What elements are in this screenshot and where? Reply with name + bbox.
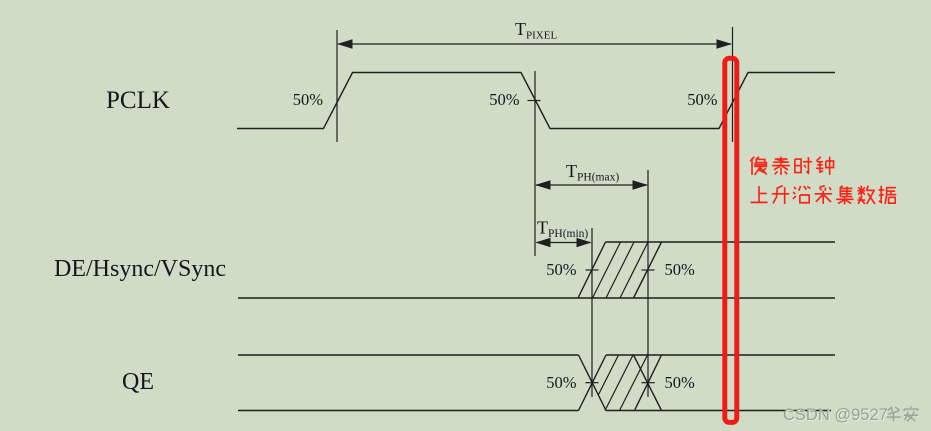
svg-text:QE: QE <box>122 369 154 395</box>
svg-text:50%: 50% <box>665 373 696 392</box>
svg-text:50%: 50% <box>293 90 324 109</box>
svg-text:50%: 50% <box>665 260 696 279</box>
svg-text:50%: 50% <box>687 90 718 109</box>
svg-text:PCLK: PCLK <box>106 87 170 114</box>
svg-text:CSDN @9527: CSDN @9527 <box>783 406 888 424</box>
svg-text:50%: 50% <box>546 373 577 392</box>
svg-text:DE/Hsync/VSync: DE/Hsync/VSync <box>54 256 226 282</box>
svg-text:50%: 50% <box>489 90 520 109</box>
svg-text:50%: 50% <box>546 260 577 279</box>
